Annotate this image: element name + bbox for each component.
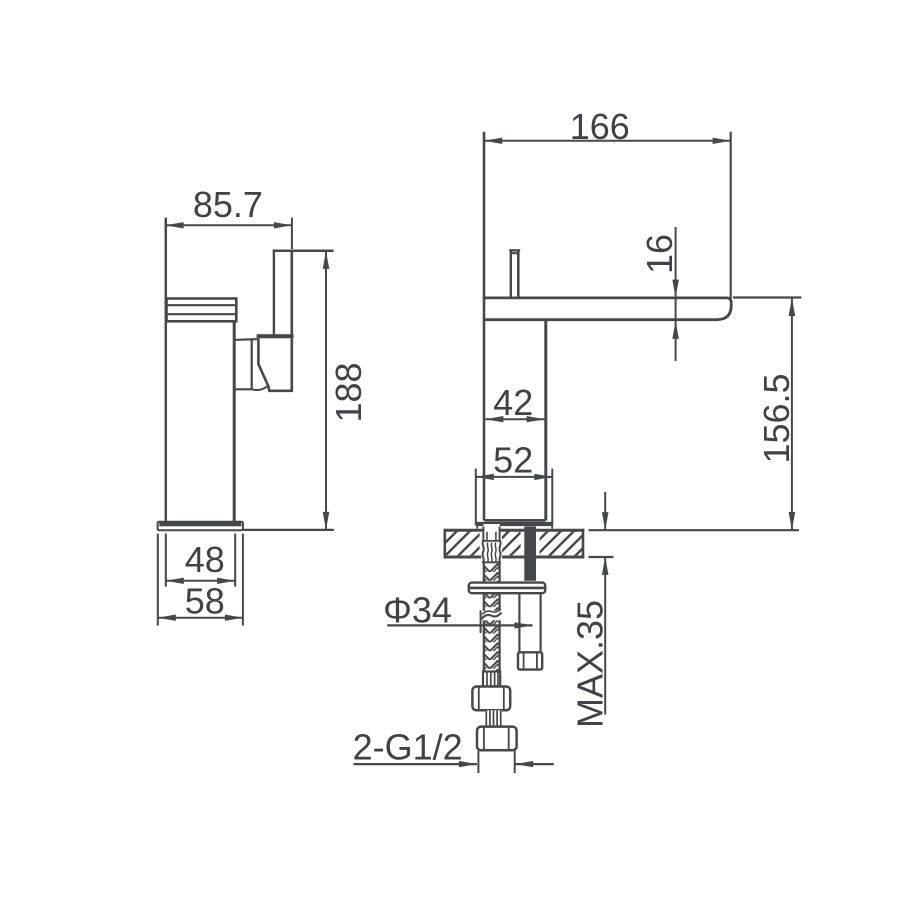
48 arrow left bbox=[166, 578, 184, 584]
MAX.35 arrow down bbox=[602, 512, 609, 530]
counter bottom line bbox=[444, 556, 585, 559]
handle pivot top thick bar bbox=[257, 334, 294, 338]
156.5 top extension line bbox=[733, 296, 801, 298]
svg-text:16: 16 bbox=[639, 234, 680, 274]
svg-text:52: 52 bbox=[493, 440, 533, 481]
column bottom line bbox=[485, 519, 546, 522]
connector bottom arc bbox=[252, 386, 268, 390]
48 dimension line bbox=[166, 580, 235, 582]
corrugated nipple bbox=[481, 541, 502, 562]
svg-text:188: 188 bbox=[328, 362, 369, 422]
handle lever bbox=[273, 250, 334, 336]
2-G1/2 dimension line right bbox=[515, 763, 554, 765]
16 arrow down bbox=[672, 280, 679, 298]
rib section between nuts bbox=[485, 710, 502, 726]
hose shank through counter bbox=[483, 524, 499, 541]
stud nut bbox=[518, 652, 542, 669]
counter hatch middle part bbox=[502, 532, 521, 556]
svg-text:156.5: 156.5 bbox=[756, 373, 797, 463]
85.7 arrow right bbox=[274, 222, 292, 228]
85.7 right extension line bbox=[291, 218, 293, 249]
166 arrow right bbox=[713, 138, 731, 144]
body right edge bbox=[233, 321, 236, 522]
hose nut 2 bbox=[477, 727, 517, 751]
2-G1/2 arrow right-pointing bbox=[459, 761, 477, 767]
MAX.35 upper dimension line bbox=[604, 492, 606, 530]
counter hatch left part bbox=[446, 532, 480, 556]
counter left edge bbox=[443, 529, 446, 559]
spout outline with rounded right end bbox=[484, 298, 731, 320]
hose nut 1 bbox=[472, 687, 510, 711]
braided hose bbox=[484, 562, 500, 671]
166 dimension line bbox=[484, 140, 730, 142]
188 arrow bottom bbox=[323, 512, 330, 530]
svg-text:2-G1/2: 2-G1/2 bbox=[353, 727, 463, 768]
svg-text:85.7: 85.7 bbox=[193, 184, 263, 225]
phi34 leader line bbox=[387, 624, 532, 626]
handle pivot body bbox=[258, 338, 291, 391]
svg-text:48: 48 bbox=[185, 539, 225, 580]
ferrule with ribs bbox=[483, 672, 500, 687]
156.5 arrow top bbox=[789, 298, 796, 316]
166 right extension line bbox=[730, 132, 732, 299]
counter bottom short extension bbox=[589, 556, 614, 558]
188 arrow top bbox=[323, 251, 330, 269]
48 extension lines bbox=[165, 534, 167, 587]
156.5 arrow bottom bbox=[789, 512, 796, 530]
42 arrow left bbox=[485, 416, 503, 422]
156.5/MAX35 counter-top extension line bbox=[589, 529, 800, 531]
2-G1/2 arrow left-pointing bbox=[515, 761, 533, 767]
counter top line bbox=[444, 529, 585, 532]
svg-text:58: 58 bbox=[185, 581, 225, 622]
58 arrow right bbox=[225, 615, 243, 621]
166 arrow left bbox=[484, 138, 502, 144]
washer plate bbox=[469, 583, 545, 594]
handle stub bbox=[509, 250, 520, 297]
16 dimension line bbox=[675, 227, 677, 361]
body cap grooves bbox=[167, 299, 237, 322]
hose S-bend detail bbox=[481, 609, 502, 620]
counter hatch right part bbox=[540, 532, 583, 556]
base plate bbox=[158, 522, 243, 531]
188 dimension line bbox=[325, 251, 327, 530]
2-G1/2 extension lines bbox=[477, 751, 479, 773]
42 dimension line bbox=[485, 418, 544, 420]
52 arrow left bbox=[476, 474, 494, 480]
svg-text:Φ34: Φ34 bbox=[383, 589, 452, 630]
phi34 tick at hose edge bbox=[480, 611, 482, 634]
2-G1/2 leader/dimension line left bbox=[354, 763, 477, 765]
column right edge bbox=[544, 320, 547, 521]
flange bar bbox=[477, 522, 552, 526]
svg-text:166: 166 bbox=[570, 106, 630, 147]
58 dimension line bbox=[158, 617, 243, 619]
16 arrow up bbox=[672, 321, 679, 339]
85.7 dimension line bbox=[166, 224, 292, 226]
85.7 arrow left bbox=[166, 222, 184, 228]
156.5 dimension line bbox=[791, 298, 793, 530]
faucet left edge + 166 left extension bbox=[483, 132, 486, 521]
52 extension lines bbox=[475, 469, 477, 526]
svg-text:MAX.35: MAX.35 bbox=[570, 600, 611, 728]
cartridge connector bbox=[236, 339, 258, 389]
body left edge (also 85.7 extension line) bbox=[165, 218, 168, 522]
flange end ticks bbox=[476, 522, 478, 529]
stud outline below washer bbox=[519, 593, 540, 652]
counter right edge bbox=[582, 529, 585, 559]
52 arrow right bbox=[534, 474, 552, 480]
phi34 arrow bbox=[515, 622, 533, 628]
48 arrow right bbox=[217, 578, 235, 584]
base bottom extension line to 188 dim bbox=[244, 529, 334, 531]
52 dimension line bbox=[476, 476, 553, 478]
MAX.35 arrow up bbox=[602, 557, 609, 575]
MAX.35 lower dimension line bbox=[604, 557, 606, 715]
svg-text:42: 42 bbox=[493, 382, 533, 423]
58 extension lines bbox=[157, 534, 159, 626]
mounting stud (dark) bbox=[524, 526, 536, 580]
58 arrow left bbox=[158, 615, 176, 621]
42 arrow right bbox=[527, 416, 545, 422]
